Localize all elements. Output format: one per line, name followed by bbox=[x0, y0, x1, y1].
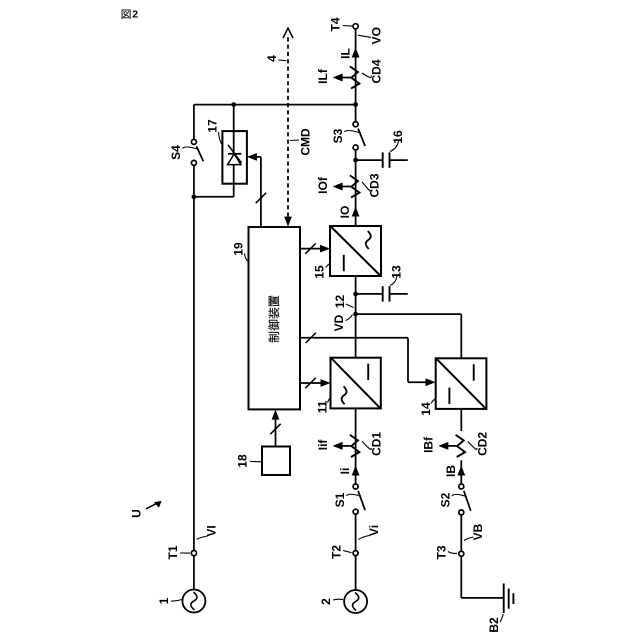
svg-text:S4: S4 bbox=[169, 145, 183, 160]
svg-text:B2: B2 bbox=[487, 617, 501, 633]
svg-text:CD3: CD3 bbox=[368, 173, 382, 197]
svg-text:S3: S3 bbox=[331, 128, 345, 143]
svg-text:12: 12 bbox=[333, 295, 347, 309]
svg-text:S1: S1 bbox=[333, 492, 347, 507]
svg-text:T2: T2 bbox=[330, 545, 344, 559]
svg-text:CD4: CD4 bbox=[370, 59, 384, 83]
svg-text:VO: VO bbox=[370, 27, 384, 44]
svg-text:CD1: CD1 bbox=[370, 432, 384, 456]
svg-text:19: 19 bbox=[232, 242, 246, 256]
svg-text:CMD: CMD bbox=[299, 128, 313, 156]
svg-text:1: 1 bbox=[157, 597, 171, 604]
svg-text:2: 2 bbox=[319, 598, 333, 605]
svg-text:14: 14 bbox=[419, 402, 433, 416]
svg-text:U: U bbox=[130, 509, 144, 518]
svg-text:VI: VI bbox=[205, 525, 219, 536]
svg-text:4: 4 bbox=[265, 55, 279, 62]
svg-text:IL: IL bbox=[338, 48, 352, 59]
svg-text:Vi: Vi bbox=[367, 525, 381, 536]
svg-text:IO: IO bbox=[338, 206, 352, 219]
svg-text:2: 2 bbox=[132, 9, 138, 21]
svg-text:CD2: CD2 bbox=[475, 432, 489, 456]
svg-text:IBf: IBf bbox=[422, 436, 436, 453]
svg-text:S2: S2 bbox=[439, 492, 453, 507]
svg-text:18: 18 bbox=[236, 454, 250, 468]
svg-text:T1: T1 bbox=[166, 545, 180, 559]
svg-text:ILf: ILf bbox=[316, 68, 330, 84]
svg-text:T4: T4 bbox=[329, 17, 343, 31]
svg-text:IB: IB bbox=[444, 465, 458, 477]
svg-text:17: 17 bbox=[206, 119, 220, 133]
svg-text:IOf: IOf bbox=[316, 176, 330, 194]
svg-text:VB: VB bbox=[471, 523, 485, 540]
svg-text:T3: T3 bbox=[435, 545, 449, 559]
svg-text:15: 15 bbox=[313, 265, 327, 279]
svg-text:VD: VD bbox=[332, 314, 346, 331]
svg-text:Ii: Ii bbox=[338, 468, 352, 475]
svg-text:Iif: Iif bbox=[316, 439, 330, 451]
